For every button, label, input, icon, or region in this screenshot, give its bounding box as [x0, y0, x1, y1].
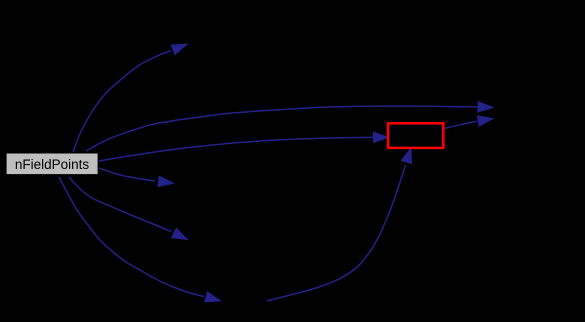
wire edge red node to right node (lower)	[444, 116, 493, 129]
wire edge nFieldPoints to top node	[73, 44, 187, 152]
wire edge nFieldPoints short right	[99, 168, 174, 187]
wire edge nFieldPoints to bottom node	[59, 177, 221, 302]
wire edge nFieldPoints to right node (upper)	[86, 102, 493, 151]
node nFieldPoints	[6, 153, 98, 175]
node current (red, empty)	[388, 123, 443, 148]
wire edge nFieldPoints mid-low	[69, 177, 188, 240]
wire edge bottom node to red node	[267, 148, 411, 301]
wire edge nFieldPoints to red node	[99, 132, 389, 161]
svg-text:nFieldPoints: nFieldPoints	[15, 157, 90, 172]
